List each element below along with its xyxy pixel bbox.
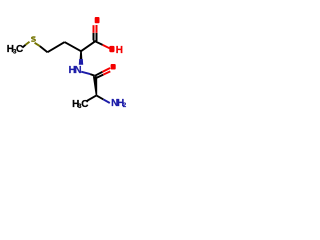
bond C-OH	[95, 41, 102, 45]
bond CH-COOH	[81, 41, 95, 51]
carboxyl C=O double bond main line	[96, 33, 98, 41]
stereo wedge CH-NH (blue tip)	[79, 59, 83, 65]
amide C=O double bond second line	[96, 75, 103, 78]
stereo wedge CH-NH (black part)	[80, 51, 83, 59]
svg-text:N: N	[74, 65, 81, 76]
bond N-C(=O)	[81, 72, 90, 74]
carbonyl O (top)	[95, 17, 100, 23]
amide HN label	[69, 65, 82, 76]
svg-text:C: C	[16, 44, 23, 55]
stereo wedge alanine CH-C(=O)	[93, 76, 97, 95]
amide O	[111, 64, 116, 70]
amine NH2 label	[111, 98, 127, 109]
bond CH3-S	[22, 45, 25, 48]
svg-text:C: C	[81, 99, 88, 110]
alanine methyl label H3C	[72, 99, 88, 110]
bond S-CH2	[35, 43, 40, 46]
bond CH2-CH (alpha carbon)	[65, 42, 81, 51]
svg-text:2: 2	[123, 102, 127, 109]
amide C=O double bond main line	[95, 72, 103, 76]
carboxyl C=O double bond second line	[93, 33, 95, 41]
bond CH-CH3 (alanine methyl)	[87, 95, 97, 101]
methyl label H3C (S-methyl of methionine)	[7, 44, 23, 55]
bond CH-NH2	[97, 96, 104, 100]
background	[0, 0, 130, 130]
svg-text:H: H	[116, 45, 123, 56]
bond CH2-CH2	[48, 42, 65, 52]
carboxyl junction	[93, 40, 97, 42]
hydroxyl O	[109, 46, 114, 52]
sulfur S	[31, 37, 35, 41]
